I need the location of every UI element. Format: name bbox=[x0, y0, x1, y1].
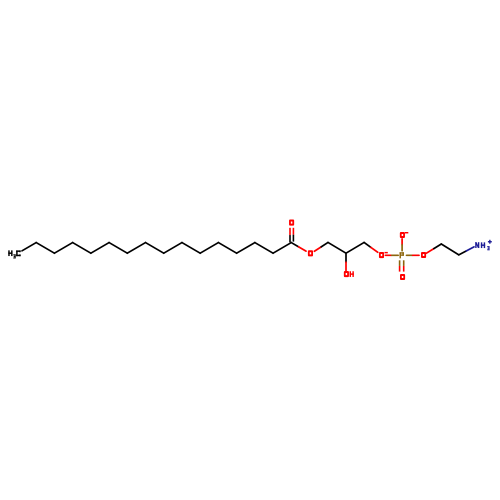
wire: bond CH-CH2 (glycerol) bbox=[346, 242, 364, 253]
wire: bond C10-C9 bbox=[127, 243, 145, 254]
wire: bond CH2-O(phosphate bridge left), black/red halves bbox=[364, 242, 371, 247]
wire: bond C16(H3C)-C15 bbox=[22, 243, 36, 251]
wire: bond C4-C3 bbox=[237, 243, 255, 254]
wire: bond CH2-N, black/navy halves bbox=[459, 251, 467, 255]
wire: bond CH2-CH2 (ethanolamine) bbox=[441, 244, 459, 255]
wire: bond CH2-CH (glycerol) bbox=[328, 242, 346, 253]
wire: bond O(top)-P vertical, red/olive halves bbox=[401, 239, 403, 245]
atom label: carbonyl O (red) bbox=[289, 220, 294, 226]
atom label: terminal methyl H3C bbox=[8, 250, 20, 258]
wire: bond CH-OH, black/red halves bbox=[345, 254, 347, 262]
wire: bond C5-C4 bbox=[218, 243, 236, 254]
wire: bond O(ester)-CH2(glycerol), red/black halves bbox=[314, 247, 321, 251]
atom label: phosphorus P (olive) bbox=[400, 252, 401, 258]
wire: bond O(right)-CH2 ethanolamine, red/black halves bbox=[426, 249, 433, 254]
wire: bond O(left)-P horizontal, red/olive halves bbox=[385, 254, 391, 256]
wire: bond C13-C12 bbox=[73, 243, 91, 254]
wire: bond C3-C2 bbox=[255, 243, 273, 254]
atom label: ester O (red) bbox=[308, 250, 313, 256]
wire: bond C9-C8 bbox=[146, 243, 164, 254]
atom label: phosphate right bridging O (red) bbox=[421, 252, 426, 258]
atom label: phosphate top O with minus charge (red) bbox=[400, 232, 408, 238]
wire: bond C2-C1 bbox=[273, 243, 291, 254]
atom label: phosphate left bridging O with minus charge (red) bbox=[379, 252, 388, 258]
wire: bond C7-C6 bbox=[182, 243, 200, 254]
wire: bond C8-C7 bbox=[164, 243, 182, 254]
atom label: hydroxyl OH (red) bbox=[344, 271, 354, 277]
wire: bond C15-C14 bbox=[36, 243, 54, 254]
wire: carbonyl C1=O double bond (red upper half, black lower half) bbox=[290, 228, 293, 243]
atom label: phosphate double-bonded O (red) bbox=[400, 274, 405, 280]
wire: bond P-O(right) horizontal, olive/red halves bbox=[407, 254, 413, 256]
wire: bond C6-C5 bbox=[200, 243, 218, 254]
atom label: ammonium NH3+ (navy blue) bbox=[475, 240, 492, 250]
wire: bond C14-C13 bbox=[54, 243, 72, 254]
wire: bond C12-C11 bbox=[91, 243, 109, 254]
wire: bond C11-C10 bbox=[109, 243, 127, 254]
wire: P=O double bond vertical (olive upper, red lower halves) bbox=[400, 260, 404, 271]
wire: bond C1-O(ester), black/red halves bbox=[291, 243, 298, 247]
